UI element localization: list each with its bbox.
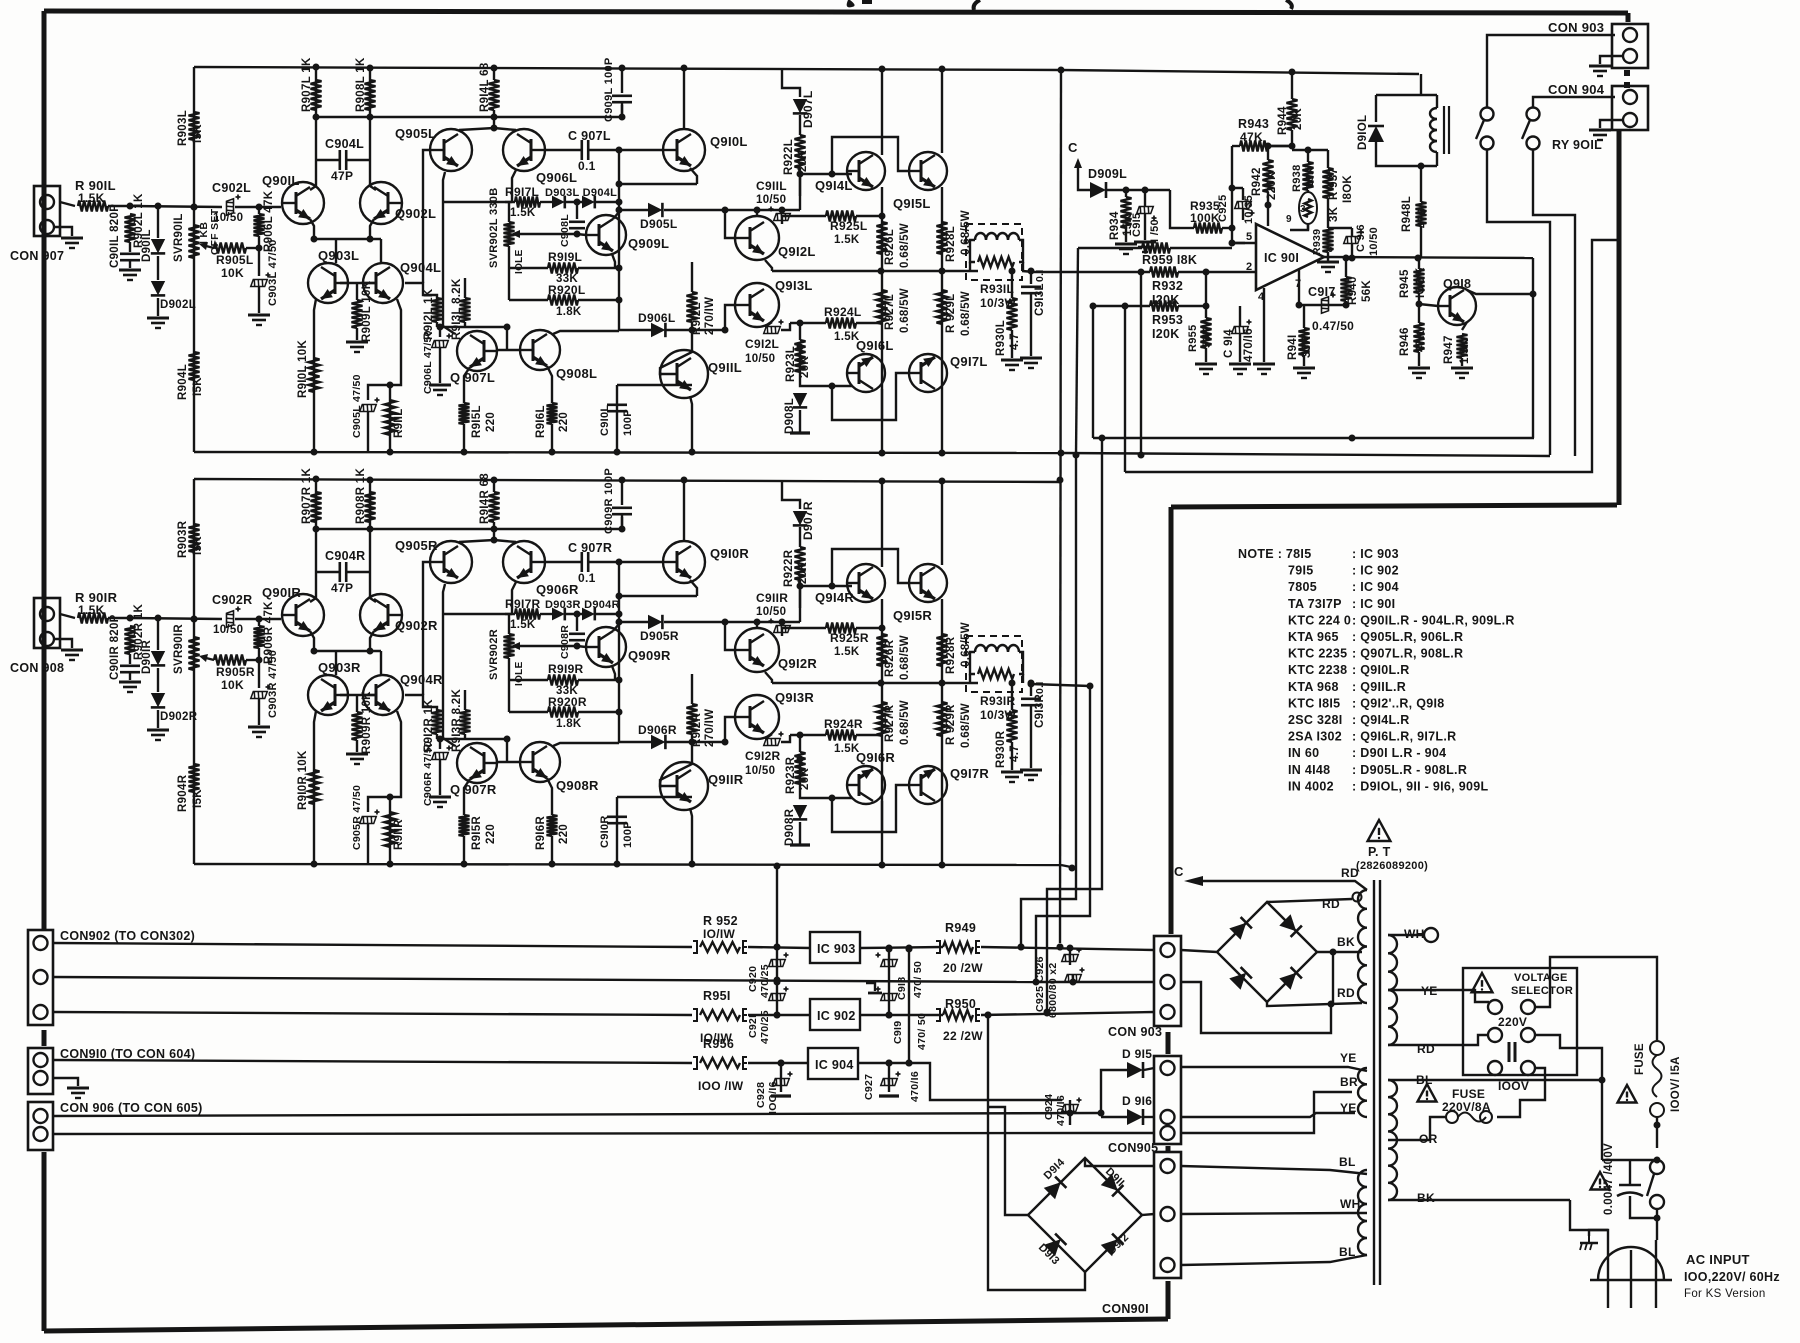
svg-text:C9I0R: C9I0R: [599, 815, 611, 848]
wire D902R gnd: [157, 710, 159, 728]
svg-text:C925 C926: C925 C926: [1034, 956, 1046, 1012]
svg-text:P. T: P. T: [1368, 845, 1391, 859]
svg-text:R924L: R924L: [824, 305, 862, 319]
svg-text:C908L: C908L: [559, 214, 571, 247]
wire Q914L base row: [797, 171, 853, 178]
wire Q912L emitter col: [765, 260, 772, 271]
ground CON903: [1589, 66, 1611, 76]
wire Q904R base row: [405, 695, 437, 712]
wire D906L row: [619, 329, 651, 331]
wire bridge1 right BK tap: [1317, 949, 1362, 956]
wire Q907L-Q908L base tie: [497, 349, 520, 351]
svg-text:I5K: I5K: [192, 377, 204, 396]
svg-text:Q90IR: Q90IR: [262, 585, 301, 600]
wire output row R: [820, 680, 978, 687]
capacitor C917 0.47/50: [1322, 293, 1336, 314]
svg-text:C9IIR: C9IIR: [756, 591, 788, 605]
wire CON903 gnd stub: [1600, 56, 1623, 64]
border frame right thick bus: mid vertical: [1169, 507, 1174, 934]
wire Q905L emitter drop: [443, 172, 445, 202]
voltage selector box: [1463, 968, 1577, 1075]
svg-text:Q90IL: Q90IL: [262, 173, 300, 188]
resistor R916R 220: [547, 815, 558, 864]
wire Q912/Q913 to output: [772, 270, 820, 272]
resistor R927L 0.68/5W: [877, 290, 888, 324]
svg-text:C92I: C92I: [747, 1015, 759, 1038]
svg-text:470/I6: 470/I6: [1055, 1095, 1067, 1126]
regulator IC902: [810, 999, 860, 1030]
svg-text:IOOK: IOOK: [1415, 267, 1427, 298]
svg-text:: Q9I2'..R, Q9I8: : Q9I2'..R, Q9I8: [1352, 696, 1445, 710]
wire -supply row CON902.3: [53, 1012, 692, 1015]
svg-text:R 937: R 937: [1328, 168, 1340, 200]
wire bus line 1: [1093, 435, 1534, 442]
transistor Q911R: [660, 762, 708, 810]
svg-text:R947: R947: [1443, 335, 1455, 364]
svg-text:R944: R944: [1277, 106, 1289, 135]
wire Q913R base feed: [725, 717, 735, 742]
capacitor C901R 820P: [120, 666, 140, 680]
wire bridge2 bottom: [985, 1012, 1086, 1291]
svg-text:KTC 2235: KTC 2235: [1288, 647, 1347, 661]
svg-text:CON90I: CON90I: [1102, 1302, 1149, 1316]
wire YE tap to CON905.1: [1181, 1067, 1367, 1071]
wire R922L node drop: [799, 174, 801, 196]
svg-text:0.68/5W: 0.68/5W: [899, 288, 911, 333]
svg-text:For KS Version: For KS Version: [1684, 1288, 1766, 1300]
wire emitter column R926L: [879, 187, 886, 453]
capacitor C925 10/35: [1235, 202, 1255, 221]
svg-text:Q902R: Q902R: [395, 618, 438, 633]
wire R923R top: [797, 732, 804, 753]
svg-text:R925L: R925L: [830, 219, 868, 233]
resistor R922R 20K: [795, 547, 806, 608]
wire VAS node column: [616, 562, 623, 742]
wire bridge1 bottom RD tap: [1267, 1001, 1362, 1008]
svg-text:R955: R955: [1187, 325, 1199, 353]
wire CON903 mid to RD net: [1181, 982, 1331, 1033]
svg-text:R959 I8K: R959 I8K: [1142, 253, 1197, 267]
svg-text:R904R: R904R: [177, 774, 189, 812]
svg-text:KTA 965: KTA 965: [1288, 630, 1339, 644]
diode D909L: [1090, 182, 1106, 198]
transistor Q913R: [735, 695, 779, 739]
resistor R901R 1.5K: [78, 613, 130, 624]
wire Q914R base row: [797, 583, 853, 590]
wire top rail extension to relay column: [1058, 67, 1420, 76]
svg-text:IOO/I6: IOO/I6: [767, 1081, 779, 1114]
capacitor C914 470/16: [1232, 315, 1252, 362]
svg-text:R927L: R927L: [884, 294, 896, 330]
wire diode row joins: [540, 613, 553, 615]
wire row 184: [619, 183, 697, 185]
resistor R931R: [978, 669, 1014, 679]
wire D901R branch: [157, 618, 159, 650]
AC input plug: [1598, 1247, 1664, 1280]
wire Q907L collector riser: [443, 202, 455, 334]
capacitor C907L 0.1: [545, 140, 619, 160]
wire Q909L emitter: [612, 254, 615, 268]
svg-text:IOO /IW: IOO /IW: [698, 1079, 744, 1093]
svg-text:C925: C925: [1217, 195, 1229, 223]
bridge diode SW of rectifier upper: [1229, 967, 1252, 990]
wire YE2 tap to CON905.2: [1181, 1113, 1355, 1117]
wire R939/C916 top tie: [1328, 227, 1352, 229]
svg-text:5: 5: [1246, 231, 1252, 243]
svg-text:Q909L: Q909L: [628, 236, 669, 251]
wire bridge1 left to CON903: [1181, 950, 1217, 952]
wire Q903R emitter col R910R: [314, 711, 316, 864]
wire D906R row: [619, 741, 651, 743]
svg-text:470/ 50: 470/ 50: [912, 961, 924, 998]
relay core lines: [1443, 106, 1445, 154]
svg-text:Q902L: Q902L: [395, 206, 436, 221]
wire emitter node row: [311, 236, 382, 243]
wire bridge1 top to RD tap: [1267, 899, 1352, 902]
transistor Q916L: [847, 354, 885, 392]
ground C903R: [248, 727, 270, 737]
svg-text:Q904R: Q904R: [400, 672, 443, 687]
transistor Q902L: [360, 182, 402, 224]
wire C920/21 column: [774, 944, 781, 1019]
svg-text:R9I6R: R9I6R: [535, 816, 547, 850]
svg-text:R930R: R930R: [995, 730, 1007, 768]
capacitor C924 470/16: [1062, 1098, 1082, 1112]
wire Q902R collector: [370, 572, 376, 602]
connector CON905: [1154, 1056, 1181, 1144]
wire Q912R emitter col: [765, 672, 772, 683]
wire Q918 collector: [1467, 290, 1533, 294]
resistor R924R 1.5K: [790, 730, 882, 741]
wire output down bus1 right: [1530, 258, 1537, 438]
svg-text:C9I3L: C9I3L: [1034, 283, 1046, 316]
svg-text:AC INPUT: AC INPUT: [1686, 1252, 1750, 1267]
wire Q904L emitter col: [387, 299, 402, 452]
svg-text:C909L 100P: C909L 100P: [603, 57, 615, 122]
selector contact circle: [1488, 1000, 1502, 1014]
ground bar C927: [879, 1094, 899, 1097]
wire D906R to Q911R: [666, 739, 729, 746]
svg-text:R9I3R 8.2K: R9I3R 8.2K: [451, 689, 463, 752]
wire Q902L emitter: [370, 219, 374, 239]
wire D904L out: [596, 201, 619, 203]
svg-text:IN 4I48: IN 4I48: [1288, 763, 1330, 777]
wire left edge column R channel: [191, 479, 198, 864]
wire relay column top: [1420, 74, 1422, 95]
svg-text:: D905L.R - 908L.R: : D905L.R - 908L.R: [1352, 763, 1467, 777]
transistor Q908R: [520, 742, 560, 782]
svg-text:C903L 47/50: C903L 47/50: [267, 239, 279, 306]
wire D905L row right: [664, 207, 800, 214]
diode D907R: [793, 511, 807, 525]
capacitor C926 6800/80: [1065, 968, 1085, 982]
wire D903L-D904L: [566, 199, 583, 206]
wire D909L cathode row: [1107, 187, 1170, 194]
wire Q911R emitter: [690, 808, 692, 864]
svg-text:C9I2R: C9I2R: [745, 749, 781, 763]
svg-text:SVR902R: SVR902R: [488, 629, 500, 680]
wire C907L row to Q910L base: [616, 147, 665, 154]
selector contact circle: [1488, 1061, 1502, 1075]
diode D905R: [648, 615, 662, 629]
wire bridge2 top: [1085, 1158, 1154, 1166]
resistor R935 100K: [1180, 223, 1232, 234]
wire R913L top to Q905 base: [464, 278, 466, 283]
wire R932 drop x1141: [1140, 272, 1142, 455]
resistor R914L 68: [489, 68, 500, 128]
svg-text:6800/80 x2: 6800/80 x2: [1047, 962, 1059, 1018]
ground input connector R: [61, 650, 83, 660]
capacitor 0.0047/400V: [1619, 1184, 1641, 1187]
resistor R909L 10K: [352, 283, 363, 340]
wire input gnd stub R: [54, 639, 72, 648]
svg-text:0.68/5W: 0.68/5W: [899, 635, 911, 680]
wire R906R/R905R node: [256, 657, 263, 689]
wire CON903 to relay: [1487, 35, 1615, 108]
transistor Q915R: [909, 564, 947, 602]
wire Q913L base feed: [725, 305, 735, 330]
resistor R904R 15K: [189, 764, 200, 792]
resistor R906R 47K: [254, 619, 265, 660]
svg-text:IN 60: IN 60: [1288, 746, 1319, 760]
capacitor C909L 100P: [612, 96, 632, 117]
resistor R922L 20K: [795, 135, 806, 196]
wire D916 out: [1144, 1116, 1154, 1118]
wire C926 col: [1072, 975, 1074, 982]
inductor L931L: [975, 233, 1019, 240]
svg-text:C9IIL: C9IIL: [756, 179, 787, 193]
wire pot col: [508, 202, 510, 222]
svg-text:C9I9: C9I9: [892, 1021, 904, 1044]
svg-text:Q9I5R: Q9I5R: [893, 608, 932, 623]
svg-text:R928L: R928L: [945, 226, 957, 262]
wire switch to plug: [1654, 1209, 1661, 1240]
svg-text:Q9I6L: Q9I6L: [856, 338, 894, 353]
wire supply riser to R block rail: [774, 863, 781, 948]
svg-text:56K: 56K: [1201, 327, 1213, 348]
wire C912R row: [781, 735, 790, 742]
wire RD tap to selector: [1388, 1035, 1489, 1045]
wire C919 gnd bracket: [866, 983, 875, 991]
svg-text:CON 903: CON 903: [1108, 1025, 1162, 1039]
svg-text:D905L: D905L: [640, 217, 678, 231]
svg-text:FUSE: FUSE: [1452, 1087, 1485, 1101]
svg-text:47P: 47P: [331, 169, 353, 183]
resistor R927R 0.68/5W: [877, 702, 888, 736]
svg-text:R 952: R 952: [703, 914, 738, 928]
wire cap column: [1629, 1160, 1631, 1185]
wire bus line 3: [1125, 240, 1619, 472]
resistor R941 33K: [1299, 305, 1310, 366]
capacitor C905L 47/50: [360, 398, 380, 453]
svg-text:20K: 20K: [797, 562, 809, 584]
svg-text:Q908R: Q908R: [556, 778, 599, 793]
diode D903R: [552, 608, 565, 621]
wire R912L/R913L join: [437, 324, 511, 331]
wire Q915L collector column: [941, 69, 943, 153]
wire R952 to IC903: [748, 944, 810, 951]
wire top supply rail L channel: [194, 64, 1061, 73]
terminator bar D908R: [790, 843, 810, 846]
capacitor C908R: [569, 634, 585, 640]
resistor R931L: [978, 257, 1014, 267]
svg-text:470/ 50: 470/ 50: [916, 1013, 928, 1050]
diode D901L: [151, 239, 165, 253]
capacitor C903R 47/50: [251, 685, 271, 726]
resistor R902R 1K: [125, 626, 136, 664]
svg-text:CON 908: CON 908: [10, 661, 64, 675]
svg-text:WH: WH: [1340, 1197, 1361, 1211]
wire Q912/Q913 to output: [772, 682, 820, 684]
selector contact circle: [1521, 1061, 1535, 1075]
capacitor C920 470/25: [769, 953, 789, 967]
transistor Q909R: [586, 627, 626, 667]
wire input gnd stub L: [54, 227, 72, 236]
resistor R953 120K: [1093, 301, 1206, 312]
svg-text:I /50: I /50: [1149, 219, 1161, 242]
wire bottom rail L channel: [194, 449, 1061, 457]
wire coil bottom lead: [1436, 152, 1438, 166]
resistor R951 10/1W: [693, 1009, 747, 1021]
connector CON901: [1154, 1152, 1181, 1278]
relay coil RY901L: [1430, 108, 1437, 152]
resistor R920L 1.8K: [509, 295, 619, 306]
wire Q911L base col: [660, 330, 692, 374]
bridge diode NW of rectifier lower: [1044, 1177, 1067, 1200]
wire BR tap to CON905.3: [1181, 1092, 1352, 1133]
wire emitter column R928R: [941, 599, 943, 865]
svg-text:2SC 328I: 2SC 328I: [1288, 713, 1343, 727]
svg-text:: Q9IIL.R: : Q9IIL.R: [1352, 680, 1406, 694]
ground R930R: [1001, 772, 1023, 782]
ground C906R: [429, 797, 451, 807]
svg-text:6: 6: [1327, 243, 1333, 255]
svg-text:I5K: I5K: [192, 124, 204, 143]
arrowhead SVR902L: [511, 230, 520, 238]
svg-text:Q906L: Q906L: [536, 170, 577, 185]
ground CON904: [1589, 130, 1611, 140]
svg-text:470: 470: [1417, 208, 1429, 228]
arrowhead SVR902R: [511, 642, 520, 650]
svg-text:220: 220: [485, 412, 497, 432]
capacitor C912R 10/50: [764, 732, 784, 746]
diode D902L: [151, 281, 165, 295]
resistor R928L 0.68/5W: [937, 222, 948, 254]
wire R923L top: [797, 320, 804, 341]
wire WH tap to CON901.2: [1181, 1213, 1367, 1214]
svg-text:20K: 20K: [799, 356, 811, 378]
resistor R937 180K: [1323, 150, 1334, 215]
svg-text:470/I6: 470/I6: [1243, 328, 1255, 362]
svg-text:R948L: R948L: [1401, 196, 1413, 232]
wire R908R column: [369, 480, 371, 572]
wire C912L row: [781, 323, 790, 330]
svg-text:R907L 1K: R907L 1K: [301, 57, 313, 112]
resistor R907R 1K: [311, 492, 322, 522]
wire C908R bottom: [576, 643, 578, 646]
svg-text:20K: 20K: [797, 150, 809, 172]
svg-text:R923L: R923L: [785, 346, 797, 382]
svg-text:Q9I3L: Q9I3L: [775, 278, 813, 293]
svg-text:R93IR: R93IR: [980, 694, 1016, 708]
svg-text:R904L: R904L: [177, 364, 189, 400]
resistor R902L 1K: [125, 214, 136, 252]
svg-text:4.7: 4.7: [1009, 745, 1021, 762]
bridge rectifier upper: [1217, 902, 1317, 1002]
svg-text:C905L 47/50: C905L 47/50: [351, 374, 363, 438]
capacitor C927 470/16: [881, 1072, 901, 1086]
svg-text:20 /2W: 20 /2W: [943, 961, 983, 975]
wire Q912R base feed: [725, 622, 735, 650]
svg-text:220: 220: [485, 824, 497, 844]
svg-text:: IC 902: : IC 902: [1352, 564, 1399, 578]
svg-text:100P: 100P: [622, 821, 634, 848]
wire Q904R emitter col: [387, 711, 402, 864]
svg-text:20K: 20K: [799, 768, 811, 790]
svg-text:R925R: R925R: [830, 631, 869, 645]
warning triangle fuse220: [1418, 1084, 1437, 1102]
ground R909R: [346, 754, 368, 764]
svg-text:18K: 18K: [1304, 167, 1316, 188]
wire D901L-D902L: [157, 256, 159, 280]
svg-text:20K: 20K: [1292, 108, 1304, 130]
arrowhead node C left: [1184, 876, 1203, 886]
svg-text:R927R: R927R: [884, 704, 896, 742]
transformer secondary winding A: [1358, 890, 1367, 1003]
svg-text:R905L: R905L: [216, 253, 254, 267]
wire CON906 row 1: [53, 1113, 1101, 1116]
wire Q908L emitter: [547, 366, 552, 403]
wire SVR901R wiper arrow: [206, 658, 214, 660]
bridge rectifier lower: [1028, 1158, 1142, 1272]
wire CON910 row: [53, 1060, 692, 1063]
transistor Q901R: [282, 594, 324, 636]
bridge diode NE of rectifier lower: [1101, 1174, 1124, 1197]
resistor R930R 4.7: [1007, 710, 1018, 770]
resistor R929R 0.68/5W: [937, 702, 948, 736]
svg-text:D902R: D902R: [160, 711, 198, 723]
svg-text:Q909R: Q909R: [628, 648, 671, 663]
capacitor C910L 100P: [607, 405, 627, 411]
capacitor C919 470/50: [876, 987, 898, 1001]
wire 470/16 drop column: [906, 946, 913, 1067]
capacitor C904R 47P: [316, 562, 370, 582]
svg-text:10K: 10K: [221, 266, 244, 280]
svg-text:1.5K: 1.5K: [1459, 338, 1471, 364]
wire R950 out: [981, 1010, 1154, 1019]
svg-text:IOO,220V/ 60Hz: IOO,220V/ 60Hz: [1684, 1270, 1780, 1284]
wire Q912R collector to node: [754, 619, 761, 629]
arrowhead SVR901L wiper: [199, 242, 208, 250]
svg-text:10/50: 10/50: [213, 212, 243, 224]
wire C925/26 col: [1069, 948, 1071, 965]
wire R937/R938 top tie: [1289, 143, 1329, 154]
svg-text:R9I7L: R9I7L: [505, 185, 539, 199]
svg-text:56K: 56K: [1361, 280, 1373, 302]
wire Q905L base: [423, 150, 430, 283]
wire left edge column L channel: [191, 67, 198, 452]
wire Q905R base: [423, 562, 430, 695]
wire Q907/Q908 base node drop: [506, 327, 508, 350]
svg-text:KTC 2238: KTC 2238: [1288, 663, 1347, 677]
svg-text:1.5K: 1.5K: [834, 646, 860, 658]
svg-text:C9I8: C9I8: [896, 977, 908, 1000]
resistor R912L 1K: [432, 298, 443, 327]
thick bus dash between CON903 and CON905: [1166, 1032, 1171, 1054]
wire D908R tail: [799, 822, 801, 845]
svg-text:470/I6: 470/I6: [909, 1071, 921, 1102]
resistor R910L 10K: [309, 358, 320, 392]
